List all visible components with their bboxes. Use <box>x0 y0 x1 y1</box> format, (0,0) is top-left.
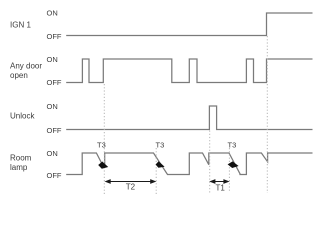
wire Room lamp trace <box>66 153 312 175</box>
svg-text:T2: T2 <box>126 183 136 192</box>
node dotted line D5 (IGN on) <box>266 36 268 193</box>
svg-text:Any door: Any door <box>10 61 42 70</box>
svg-text:T3: T3 <box>156 141 165 150</box>
node dotted line D2 (lamp fade start) <box>155 148 157 196</box>
svg-text:OFF: OFF <box>47 171 62 180</box>
svg-text:ON: ON <box>47 9 58 18</box>
svg-text:open: open <box>10 71 28 80</box>
svg-text:lamp: lamp <box>10 163 28 172</box>
svg-text:ON: ON <box>47 149 58 158</box>
arrow fade 2 head <box>156 161 165 168</box>
svg-text:T3: T3 <box>97 141 106 150</box>
svg-text:OFF: OFF <box>47 126 62 135</box>
node dotted line D4 (fade after T1) <box>228 148 230 193</box>
svg-text:Unlock: Unlock <box>10 112 35 121</box>
arrow T2 dimension <box>105 179 157 184</box>
arrow fade 4 head <box>228 161 239 168</box>
svg-text:T1: T1 <box>216 183 226 192</box>
svg-text:T3: T3 <box>228 141 237 150</box>
wire Unlock trace <box>66 106 312 130</box>
wire Any door open trace <box>66 59 312 83</box>
node dotted line D1 (door opens again) <box>103 84 105 196</box>
arrow T1 dimension <box>209 179 229 184</box>
svg-text:OFF: OFF <box>47 78 62 87</box>
svg-text:OFF: OFF <box>47 32 62 41</box>
svg-text:ON: ON <box>47 102 58 111</box>
svg-text:IGN 1: IGN 1 <box>10 21 31 30</box>
svg-text:Room: Room <box>10 153 32 162</box>
arrow fade 1 head <box>98 162 108 169</box>
svg-text:ON: ON <box>47 55 58 64</box>
wire IGN 1 trace <box>66 13 312 36</box>
node dotted line D3 (unlock) <box>209 131 211 194</box>
